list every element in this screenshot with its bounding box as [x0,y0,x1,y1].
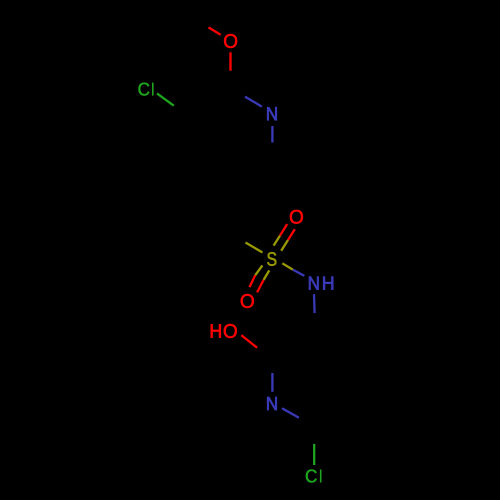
wire: bond C2'-N1' blue half [271,373,273,392]
wire: S=O lower double bond line 2 red half [257,280,264,293]
node Cl chlorine label top [139,83,154,96]
wire: bond HO-C2' red half [241,335,257,348]
wire: bond S-NH yellow half [282,263,293,269]
wire: S=O upper double bond line 2 yellow half [281,240,288,251]
wire: S=O upper double bond line 1 red half [280,224,287,236]
node HO hydroxyl label [211,324,237,338]
node Cl chlorine label bottom [306,469,322,482]
node O sulfonyl oxygen label bottom-left [241,294,254,308]
wire: bond C2-N1 blue half [245,97,262,107]
node O sulfonyl oxygen label top-right [290,210,303,224]
node N pyridine nitrogen label bottom ring [267,397,276,410]
wire: bond NH-C3' blue half [313,294,316,313]
wire: bond N1'-C6' blue half [282,408,299,417]
wire: S=O lower double bond line 1 yellow half [255,265,262,275]
wire: bond S-NH blue half [293,270,305,276]
node O methoxy oxygen label [224,34,237,48]
wire: bond O-C2 red half [229,52,231,70]
node N pyridine nitrogen label top ring [267,107,276,120]
wire: S=O upper double bond line 2 red half [288,229,295,240]
wire: S=O lower double bond line 2 yellow half [264,270,270,280]
wire: bond CH3-O red half [209,27,221,34]
wire: S=O upper double bond line 1 yellow half [274,236,280,246]
wire: bond Cl-C3 green half [157,93,174,105]
wire: bond N1-C6 blue half [271,126,273,143]
wire: bond CH2-S yellow half [246,243,263,253]
node S sulfur label [267,252,276,266]
wire: bond C6'-Cl green half [313,444,315,465]
wire: S=O lower double bond line 1 red half [250,275,256,287]
node NH sulfonamide nitrogen label [309,277,333,290]
